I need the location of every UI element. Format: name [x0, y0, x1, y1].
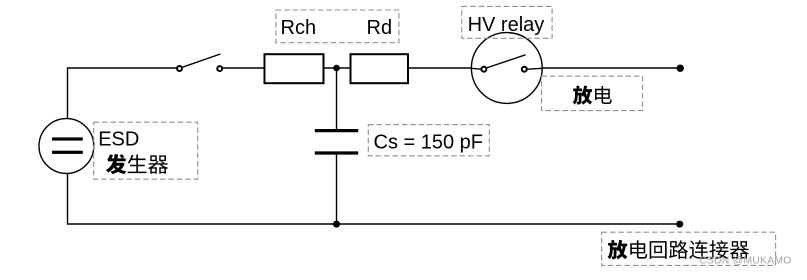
label box discharge — [542, 76, 643, 110]
svg-text:ESD: ESD — [98, 129, 139, 151]
HV relay K1 — [471, 33, 542, 104]
svg-text:HV relay: HV relay — [468, 14, 545, 36]
switch S1 (charge switch) — [177, 54, 222, 71]
wire: relay to discharge terminal — [542, 67, 680, 69]
label 放电回路连接器 (discharge return connector) — [608, 240, 749, 259]
capacitor Cs — [336, 68, 338, 129]
resistor Rd — [351, 54, 409, 83]
svg-text:Cs = 150 pF: Cs = 150 pF — [374, 131, 484, 153]
ESD generator source symbol — [39, 119, 94, 174]
ESD generator bar 2 — [52, 151, 83, 154]
node: bottom junction at Cs — [333, 221, 340, 228]
node: discharge terminal (top right) — [677, 65, 684, 72]
label box discharge return connector — [602, 232, 776, 265]
wire: left vertical bottom — [68, 174, 680, 225]
node: junction Rch/Rd/Cs — [333, 65, 340, 72]
resistor Rch — [265, 54, 324, 83]
svg-text:Rd: Rd — [367, 17, 393, 39]
wire: Rch to Rd — [324, 67, 351, 69]
label 发生器 (generator) — [106, 154, 168, 174]
label box ESD generator — [94, 122, 198, 179]
node: return terminal (bottom right) — [676, 221, 683, 228]
label 放电 (discharge) — [573, 85, 612, 104]
label box Cs value — [368, 125, 489, 156]
svg-text:Rch: Rch — [281, 17, 317, 39]
ESD generator bar 1 — [52, 137, 83, 140]
wire: Rd to HV relay — [408, 67, 471, 69]
svg-text:CSDN @MUKAMO: CSDN @MUKAMO — [699, 255, 791, 266]
wire: left vertical top (ESD to switch level) — [68, 68, 177, 119]
label box HV relay — [462, 6, 552, 38]
wire: switch to Rch — [222, 67, 264, 69]
label box Rch/Rd — [276, 10, 399, 43]
